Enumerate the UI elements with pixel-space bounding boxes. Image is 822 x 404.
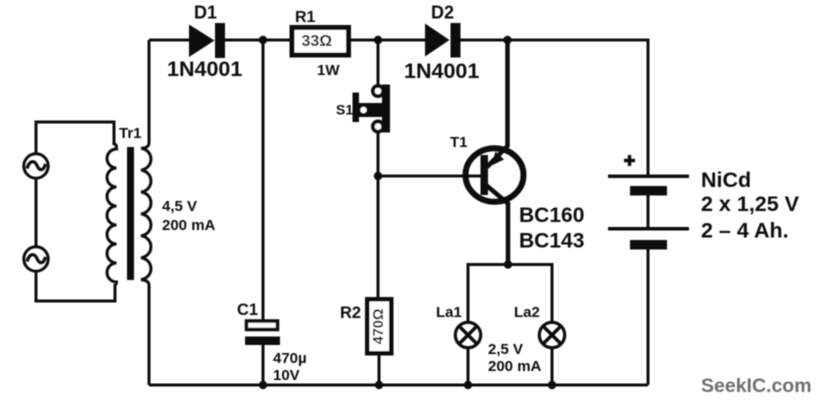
svg-text:4,5 V: 4,5 V (162, 198, 197, 215)
svg-text:R1: R1 (295, 9, 316, 26)
wire D2 to battery (461, 40, 649, 175)
svg-text:33Ω: 33Ω (302, 33, 333, 50)
wire battery to bottom rail (647, 249, 650, 385)
wire R2 to bottom rail (378, 355, 381, 385)
wire between AC sources (35, 179, 38, 247)
lamp La1 (455, 322, 480, 347)
svg-text:La1: La1 (436, 304, 462, 321)
node junction La2-rail (548, 381, 556, 389)
svg-text:S1: S1 (336, 102, 353, 118)
wire La1 to bottom rail (467, 348, 470, 385)
wire S1 branch top (377, 40, 380, 86)
wire R1 to D2 (351, 39, 425, 42)
battery BT1 (608, 175, 689, 250)
svg-text:BC143: BC143 (519, 230, 584, 253)
wire S1 to R2 (377, 132, 380, 297)
resistor R1 (292, 28, 349, 56)
svg-text:1N4001: 1N4001 (167, 57, 242, 81)
svg-text:SeekIC.com: SeekIC.com (701, 375, 812, 397)
svg-text:D1: D1 (194, 3, 217, 23)
svg-text:D2: D2 (431, 3, 454, 23)
svg-text:2 x 1,25 V: 2 x 1,25 V (701, 192, 800, 216)
wire primary top (36, 122, 114, 154)
capacitor C1 (245, 321, 280, 345)
svg-text:T1: T1 (450, 134, 468, 151)
node junction collector (504, 260, 512, 268)
node junction La1-rail (464, 381, 472, 389)
svg-text:2,5 V: 2,5 V (488, 341, 523, 358)
svg-text:BC160: BC160 (519, 204, 584, 227)
lamp La2 (539, 322, 564, 347)
resistor R2 (367, 299, 391, 353)
node junction R1-S1 (374, 36, 382, 44)
svg-text:10V: 10V (273, 367, 300, 384)
diode D1 (189, 23, 225, 58)
svg-text:470Ω: 470Ω (371, 308, 387, 344)
node junction base (374, 172, 382, 180)
transistor T1 (466, 40, 524, 264)
svg-text:1W: 1W (317, 62, 340, 79)
svg-text:C1: C1 (237, 301, 258, 319)
diode D2 (425, 23, 461, 58)
wire top rail left (149, 39, 189, 42)
transformer Tr1 secondary winding (141, 40, 151, 385)
svg-text:200 mA: 200 mA (488, 358, 542, 375)
wire D1 to R1 (225, 39, 292, 42)
svg-text:R2: R2 (340, 304, 361, 322)
svg-text:470µ: 470µ (273, 350, 307, 367)
AC source G1 (24, 154, 48, 178)
node junction R2-rail (375, 381, 383, 389)
switch S1 (353, 84, 391, 134)
node junction D2-T1 emitter (503, 36, 511, 44)
svg-text:2 – 4 Ah.: 2 – 4 Ah. (701, 219, 789, 243)
transformer Tr1 primary winding (107, 144, 117, 285)
wire bottom rail (149, 384, 648, 387)
svg-text:La2: La2 (514, 304, 540, 321)
node junction D1-C1 (259, 36, 267, 44)
wire base (378, 175, 481, 178)
wire La2 to bottom rail (551, 348, 554, 385)
wire primary bottom (36, 272, 115, 302)
wire C1 to bottom rail (262, 345, 265, 385)
wire lamp branch top (468, 265, 552, 323)
wire battery middle (647, 195, 650, 227)
svg-text:200 mA: 200 mA (162, 217, 216, 234)
svg-text:1N4001: 1N4001 (404, 59, 479, 83)
AC source G2 (24, 247, 48, 271)
label + (battery) (624, 155, 635, 166)
transformer Tr1 core (127, 147, 134, 280)
node junction C1-rail (259, 381, 267, 389)
wire C1 branch (262, 40, 265, 320)
svg-text:Tr1: Tr1 (119, 125, 142, 142)
svg-text:NiCd: NiCd (701, 168, 751, 192)
